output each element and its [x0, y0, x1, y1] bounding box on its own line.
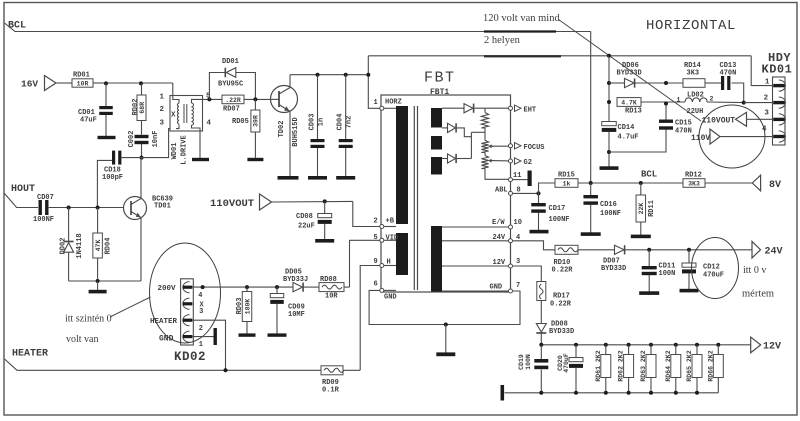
svg-text:KD01: KD01 [762, 63, 793, 77]
svg-text:470uF: 470uF [563, 353, 570, 373]
FBT internal lower diode [442, 154, 471, 163]
svg-text:itt 0 v: itt 0 v [743, 265, 766, 276]
wire 110VOUT to FBT +B pin [353, 201, 380, 226]
wire to KD01 pin2 [742, 101, 773, 105]
capacitor CD11 [642, 250, 676, 292]
svg-text:3: 3 [160, 120, 165, 128]
FBT internal G2 potentiometer [481, 156, 509, 169]
svg-text:BYU95C: BYU95C [218, 81, 243, 89]
wire bottom ground rail [505, 391, 719, 395]
svg-text:5: 5 [374, 234, 378, 242]
svg-text:CD12: CD12 [703, 264, 720, 272]
resistor RD03 [236, 287, 252, 334]
FBT pin 8 ABL [495, 186, 539, 195]
svg-text:200V: 200V [158, 285, 177, 293]
leader line from annotation to 110V circle [559, 20, 702, 122]
svg-text:2: 2 [710, 96, 714, 103]
svg-text:180K: 180K [244, 299, 251, 315]
svg-text:3: 3 [516, 258, 520, 266]
capacitor CD17 [531, 191, 569, 230]
node 110VOUT to KD01 pin3 [702, 112, 773, 126]
wire FBT pin3 to RD17 [513, 266, 542, 282]
capacitor CD08 [296, 199, 332, 239]
ground below CD11 [639, 291, 659, 295]
svg-text:110V: 110V [691, 134, 710, 143]
FBT internal middle diode [442, 123, 471, 136]
resistor RD61 [595, 345, 611, 393]
capacitor CD14 [602, 120, 639, 167]
leader line from annotation to KD02 circle [110, 297, 151, 317]
wire RD09 to FBT H pin [360, 266, 379, 371]
svg-text:BYD33D: BYD33D [549, 328, 574, 336]
svg-text:DD01: DD01 [222, 58, 239, 66]
wire B+ rail down to KD01 pin1 [751, 56, 772, 86]
resistor RD04 [93, 208, 113, 282]
FBT internal EHT rectifier diode [442, 104, 509, 113]
connector KD02 [150, 279, 205, 349]
wire TD02 collector rail [290, 73, 368, 77]
node BCL (right) [617, 170, 683, 186]
svg-text:L.DRIVE: L.DRIVE [181, 135, 189, 164]
svg-text:4: 4 [762, 126, 767, 134]
resistor RD09 [321, 366, 360, 395]
transformer WD01 L.DRIVE [160, 93, 212, 165]
annotation 'itt 0 v' [743, 265, 766, 276]
svg-text:9: 9 [374, 258, 378, 266]
svg-text:16V: 16V [21, 79, 38, 90]
FBT internal wire to pin 11 [485, 169, 509, 180]
ground below CD09 [268, 333, 287, 336]
svg-text:mértem: mértem [742, 289, 774, 300]
svg-text:RD61 2K2: RD61 2K2 [595, 350, 602, 381]
svg-text:68R: 68R [139, 102, 146, 114]
svg-text:100N: 100N [659, 270, 676, 278]
capacitor CD20 [557, 345, 583, 393]
FBT pin 5 VID [374, 234, 399, 243]
svg-text:CD04: CD04 [337, 114, 345, 131]
diode DD07 BYD33D [601, 245, 752, 273]
svg-text:4.7K: 4.7K [621, 99, 637, 106]
svg-text:10MF: 10MF [288, 311, 305, 319]
resistor RD13 [617, 98, 642, 116]
transistor BC639 TD01 [124, 158, 174, 281]
svg-text:4: 4 [207, 120, 212, 128]
wire 16V rail to WD01 pin1 [104, 81, 173, 95]
svg-text:0.22R: 0.22R [552, 267, 574, 275]
capacitor CD04 [337, 75, 354, 176]
svg-text:1: 1 [199, 341, 203, 349]
svg-text:G2: G2 [524, 159, 532, 167]
node HOUT [5, 184, 39, 208]
resistor RD66 [707, 345, 723, 393]
FBT pin 7 GND [442, 282, 520, 293]
svg-text:4.7uF: 4.7uF [618, 134, 639, 142]
underline of annotation '2 helyen' (thick) [484, 55, 561, 57]
svg-text:10: 10 [514, 219, 522, 227]
svg-text:47uF: 47uF [80, 117, 97, 125]
inductor LD02 [641, 92, 744, 117]
resistor RD02 [132, 83, 146, 134]
capacitor CD18 [97, 151, 141, 208]
FBT pin 4 24V [442, 234, 520, 243]
label HDY [768, 51, 791, 65]
resistor RD10 [552, 245, 615, 274]
svg-text:volt van: volt van [66, 334, 99, 345]
wire BCL top rail [5, 23, 591, 32]
ellipse around CD12 [692, 238, 739, 299]
capacitor at FBT pin 11 (terminal bar) [528, 171, 532, 187]
capacitor CD15 [609, 102, 692, 153]
svg-text:0.22R: 0.22R [550, 301, 572, 309]
resistor RD07 [222, 95, 271, 113]
transistor TD02 BUH515D [271, 75, 301, 176]
svg-text:CD03: CD03 [309, 114, 317, 131]
ground below CD04 [336, 176, 355, 180]
svg-text:BCL: BCL [8, 21, 26, 32]
ground below BC639 emitter rail [89, 290, 107, 294]
FBT core lines [414, 106, 417, 290]
svg-text:X: X [171, 112, 176, 120]
svg-text:ABL: ABL [495, 186, 508, 194]
svg-text:RD64 2K2: RD64 2K2 [665, 350, 672, 381]
diode DD08 BYD33D [536, 321, 574, 345]
svg-text:RD04: RD04 [105, 238, 113, 255]
resistor RD12 [683, 172, 752, 188]
resistor RD65 [686, 345, 702, 393]
diode DD02 1N4148 [60, 208, 85, 282]
ground right of KD02 (vertical bar) [214, 328, 217, 345]
svg-text:CD19: CD19 [518, 354, 525, 370]
svg-text:HORIZONTAL: HORIZONTAL [646, 18, 736, 34]
node 24V [752, 241, 783, 258]
svg-text:39R: 39R [253, 115, 260, 127]
svg-text:2: 2 [374, 218, 378, 226]
svg-text:E/W: E/W [492, 219, 505, 227]
svg-text:CD16: CD16 [600, 201, 617, 209]
node 12V [751, 337, 781, 353]
ground below CD12 [680, 289, 699, 293]
node 110VOUT (driver supply) [210, 194, 353, 210]
svg-text:3K3: 3K3 [687, 70, 700, 78]
svg-text:C002: C002 [128, 131, 136, 148]
ground below CD16 [581, 232, 601, 236]
svg-text:VID: VID [386, 235, 399, 243]
resistor RD01 [72, 72, 106, 88]
svg-text:7: 7 [516, 282, 520, 290]
svg-text:CD08: CD08 [296, 213, 313, 221]
svg-text:RD07: RD07 [223, 106, 240, 114]
annotation 'itt szinten 0' [65, 314, 112, 325]
ground below TD02 [278, 176, 299, 180]
svg-text:BUH515D: BUH515D [292, 117, 300, 146]
svg-text:FBT1: FBT1 [430, 88, 449, 97]
capacitor CD07 [33, 194, 124, 224]
svg-text:120 volt van mind: 120 volt van mind [483, 13, 560, 24]
wire emitter rail to ground [69, 279, 141, 290]
svg-text:RD03: RD03 [236, 298, 244, 315]
wire B+ rail riser to top [367, 56, 369, 75]
annotation '2 helyen' [484, 35, 521, 46]
svg-text:4: 4 [198, 292, 202, 300]
node 5 junction [203, 97, 223, 101]
svg-text:TD01: TD01 [154, 203, 171, 211]
FBT internal FOCUS potentiometer [481, 140, 509, 155]
FBT pin 3 12V [442, 258, 520, 268]
svg-text:RD63 2K2: RD63 2K2 [640, 350, 647, 381]
FBT pin 2 +B [374, 218, 397, 229]
FBT secondary winding bars [431, 108, 442, 292]
label FBT1 [430, 88, 449, 97]
ground below CD08 [315, 239, 334, 243]
ground below RD03 [239, 333, 256, 336]
FBT pin 11 [509, 172, 528, 182]
capacitor CD01 [78, 83, 113, 136]
capacitor CD13 [720, 62, 744, 103]
svg-text:1: 1 [160, 94, 165, 102]
FBT pin FOCUS [509, 143, 545, 152]
capacitor CD19 [518, 345, 548, 393]
ground below WD01 pin4 [192, 158, 209, 161]
svg-text:110VOUT: 110VOUT [210, 198, 254, 210]
svg-text:12V: 12V [763, 342, 781, 353]
ground below RD05 [247, 158, 263, 161]
svg-text:10R: 10R [325, 293, 338, 301]
FBT pin 1 HORZ [374, 99, 402, 111]
svg-text:HORZ: HORZ [385, 99, 402, 107]
svg-text:470uF: 470uF [703, 272, 724, 280]
node 8V [752, 175, 781, 191]
flyback transformer FBT1 box [381, 95, 511, 292]
ground below FBT GND loop [436, 325, 455, 357]
connector KD01 [762, 77, 785, 145]
capacitor CD16 [583, 183, 621, 233]
svg-text:470N: 470N [675, 128, 692, 136]
diode DD05 BYD33J [283, 269, 319, 292]
resistor RD62 [618, 345, 634, 393]
capacitor CD03 [309, 75, 326, 176]
svg-text:8V: 8V [769, 180, 781, 191]
diode DD06 BYD33D [609, 62, 683, 88]
node 16V input [21, 76, 72, 91]
resistor RD14 [683, 62, 721, 87]
FBT pin EHT [509, 105, 537, 114]
resistor RD08 [319, 276, 350, 301]
svg-text:24V: 24V [765, 247, 783, 258]
svg-text:1k: 1k [563, 180, 571, 187]
capacitor CD12 [682, 250, 724, 289]
svg-text:3: 3 [764, 109, 769, 117]
svg-text:RD13: RD13 [625, 108, 642, 116]
svg-text:110VOUT: 110VOUT [702, 117, 736, 126]
annotation 'mertem' [742, 289, 774, 300]
svg-text:1: 1 [374, 99, 378, 107]
svg-text:100pF: 100pF [102, 174, 123, 182]
svg-text:KD02: KD02 [174, 350, 206, 364]
svg-text:10R: 10R [77, 80, 89, 87]
svg-text:2: 2 [199, 325, 203, 333]
svg-text:FOCUS: FOCUS [524, 144, 545, 152]
svg-text:47K: 47K [95, 240, 102, 252]
svg-text:100N: 100N [525, 354, 532, 370]
ground left of bottom rail (vertical bar) [501, 385, 505, 401]
FBT internal divider node wires [471, 132, 485, 158]
svg-text:RD17: RD17 [553, 293, 570, 301]
svg-text:1N4118: 1N4118 [76, 233, 84, 258]
FBT pin 6 GND [374, 281, 397, 302]
svg-text:2 helyen: 2 helyen [484, 35, 521, 46]
resistor RD15 [539, 172, 618, 194]
svg-text:1n: 1n [318, 118, 326, 126]
ellipse around KD02 [150, 243, 221, 343]
svg-text:RD66 2K2: RD66 2K2 [707, 350, 714, 381]
svg-text:2: 2 [764, 94, 769, 102]
svg-text:itt szintén 0: itt szintén 0 [65, 314, 112, 325]
node 110V to KD01 pin4 [691, 129, 773, 144]
svg-text:HOUT: HOUT [11, 184, 35, 195]
svg-text:22uF: 22uF [298, 223, 315, 231]
node BCL (top-left label) [8, 21, 26, 32]
resistor RD64 [665, 345, 681, 393]
FBT pin G2 [509, 158, 532, 167]
svg-text:CD07: CD07 [37, 194, 54, 202]
svg-text:10nF: 10nF [152, 131, 160, 148]
svg-text:TD02: TD02 [278, 121, 286, 138]
svg-text:22K: 22K [638, 203, 645, 215]
svg-text:GND: GND [490, 283, 503, 291]
annotation '120 volt van mind' [483, 13, 560, 24]
underline of annotation '120 volt van mind' [484, 30, 556, 32]
node HEATER [5, 349, 322, 373]
svg-text:GND: GND [384, 294, 397, 302]
FBT pin 9 H [374, 258, 397, 268]
label KD02 [174, 350, 206, 364]
svg-text:100NF: 100NF [33, 216, 54, 224]
svg-text:11: 11 [513, 172, 521, 180]
svg-text:1: 1 [765, 79, 770, 87]
resistor RD05 [232, 99, 260, 157]
wire node C002/CD18 to WD01 pin3 [142, 129, 177, 158]
wire FBT pin4 to RD10 [513, 241, 555, 250]
wire RD08 to FBT VID pin [350, 240, 380, 287]
wire BCL vertical leader down to BCL net [590, 32, 592, 184]
capacitor C002 [128, 131, 160, 160]
svg-text:BYD33D: BYD33D [617, 70, 642, 78]
label FBT [424, 70, 456, 87]
svg-text:6: 6 [374, 281, 378, 289]
wire 110V B+ top rail [368, 54, 751, 58]
svg-text:100NF: 100NF [600, 210, 621, 218]
wire DD06 branch riser [607, 56, 611, 120]
svg-text:7n2: 7n2 [346, 116, 354, 129]
resistor RD17 [537, 282, 572, 324]
wire FBT pin6 GND loop [369, 290, 520, 326]
svg-text:RD05: RD05 [232, 118, 249, 126]
ground below CD14 [600, 166, 619, 170]
svg-text:HEATER: HEATER [150, 318, 178, 326]
ground below CD17 [530, 230, 549, 234]
title HORIZONTAL [646, 18, 736, 34]
svg-text:HEATER: HEATER [12, 349, 48, 360]
svg-text:BCL: BCL [641, 170, 657, 180]
svg-text:CD17: CD17 [549, 205, 566, 213]
label KD01 [762, 63, 793, 77]
ground below RD11 [631, 235, 651, 239]
wire TD02 collector to FBT HORZ pin [366, 73, 379, 109]
svg-text:RD65 2K2: RD65 2K2 [686, 350, 693, 381]
svg-text:FBT: FBT [424, 70, 456, 87]
svg-text:RD11: RD11 [648, 200, 656, 217]
svg-text:3: 3 [199, 308, 203, 316]
FBT primary winding bars [396, 106, 408, 275]
svg-text:0.1R: 0.1R [322, 387, 340, 395]
ground below CD03 [308, 176, 327, 180]
svg-text:BYD33D: BYD33D [601, 265, 626, 273]
FBT pin 10 E/W [442, 219, 522, 229]
annotation 'volt van' [66, 334, 99, 345]
resistor RD63 [640, 345, 656, 393]
svg-text:WD01: WD01 [171, 143, 179, 160]
capacitor CD09 [270, 287, 305, 334]
svg-text:EHT: EHT [524, 106, 537, 114]
svg-text:+B: +B [386, 218, 395, 226]
svg-text:22UH: 22UH [687, 108, 704, 116]
wire KD02 HEATER pin down to heater rail [192, 320, 225, 370]
diode DD01 [209, 58, 255, 99]
svg-text:CD15: CD15 [675, 120, 692, 128]
FBT internal bleeder resistor [481, 108, 488, 140]
svg-text:RD62 2K2: RD62 2K2 [618, 350, 625, 381]
svg-text:CD14: CD14 [618, 124, 635, 132]
svg-text:BYD33J: BYD33J [283, 276, 308, 284]
svg-text:3K3: 3K3 [688, 180, 700, 187]
svg-text:2: 2 [160, 106, 165, 114]
ellipse around 110V outputs [699, 105, 765, 168]
wire WD01 pin4 to ground [199, 131, 201, 158]
wire KD02 GND pin to ground [192, 336, 213, 338]
resistor RD11 [636, 183, 656, 235]
ground below CD01 [98, 136, 116, 139]
wire 200V rail [192, 285, 293, 289]
svg-text:100NF: 100NF [549, 216, 570, 224]
svg-text:.22R: .22R [225, 97, 241, 104]
wire 12V rail [539, 343, 750, 347]
